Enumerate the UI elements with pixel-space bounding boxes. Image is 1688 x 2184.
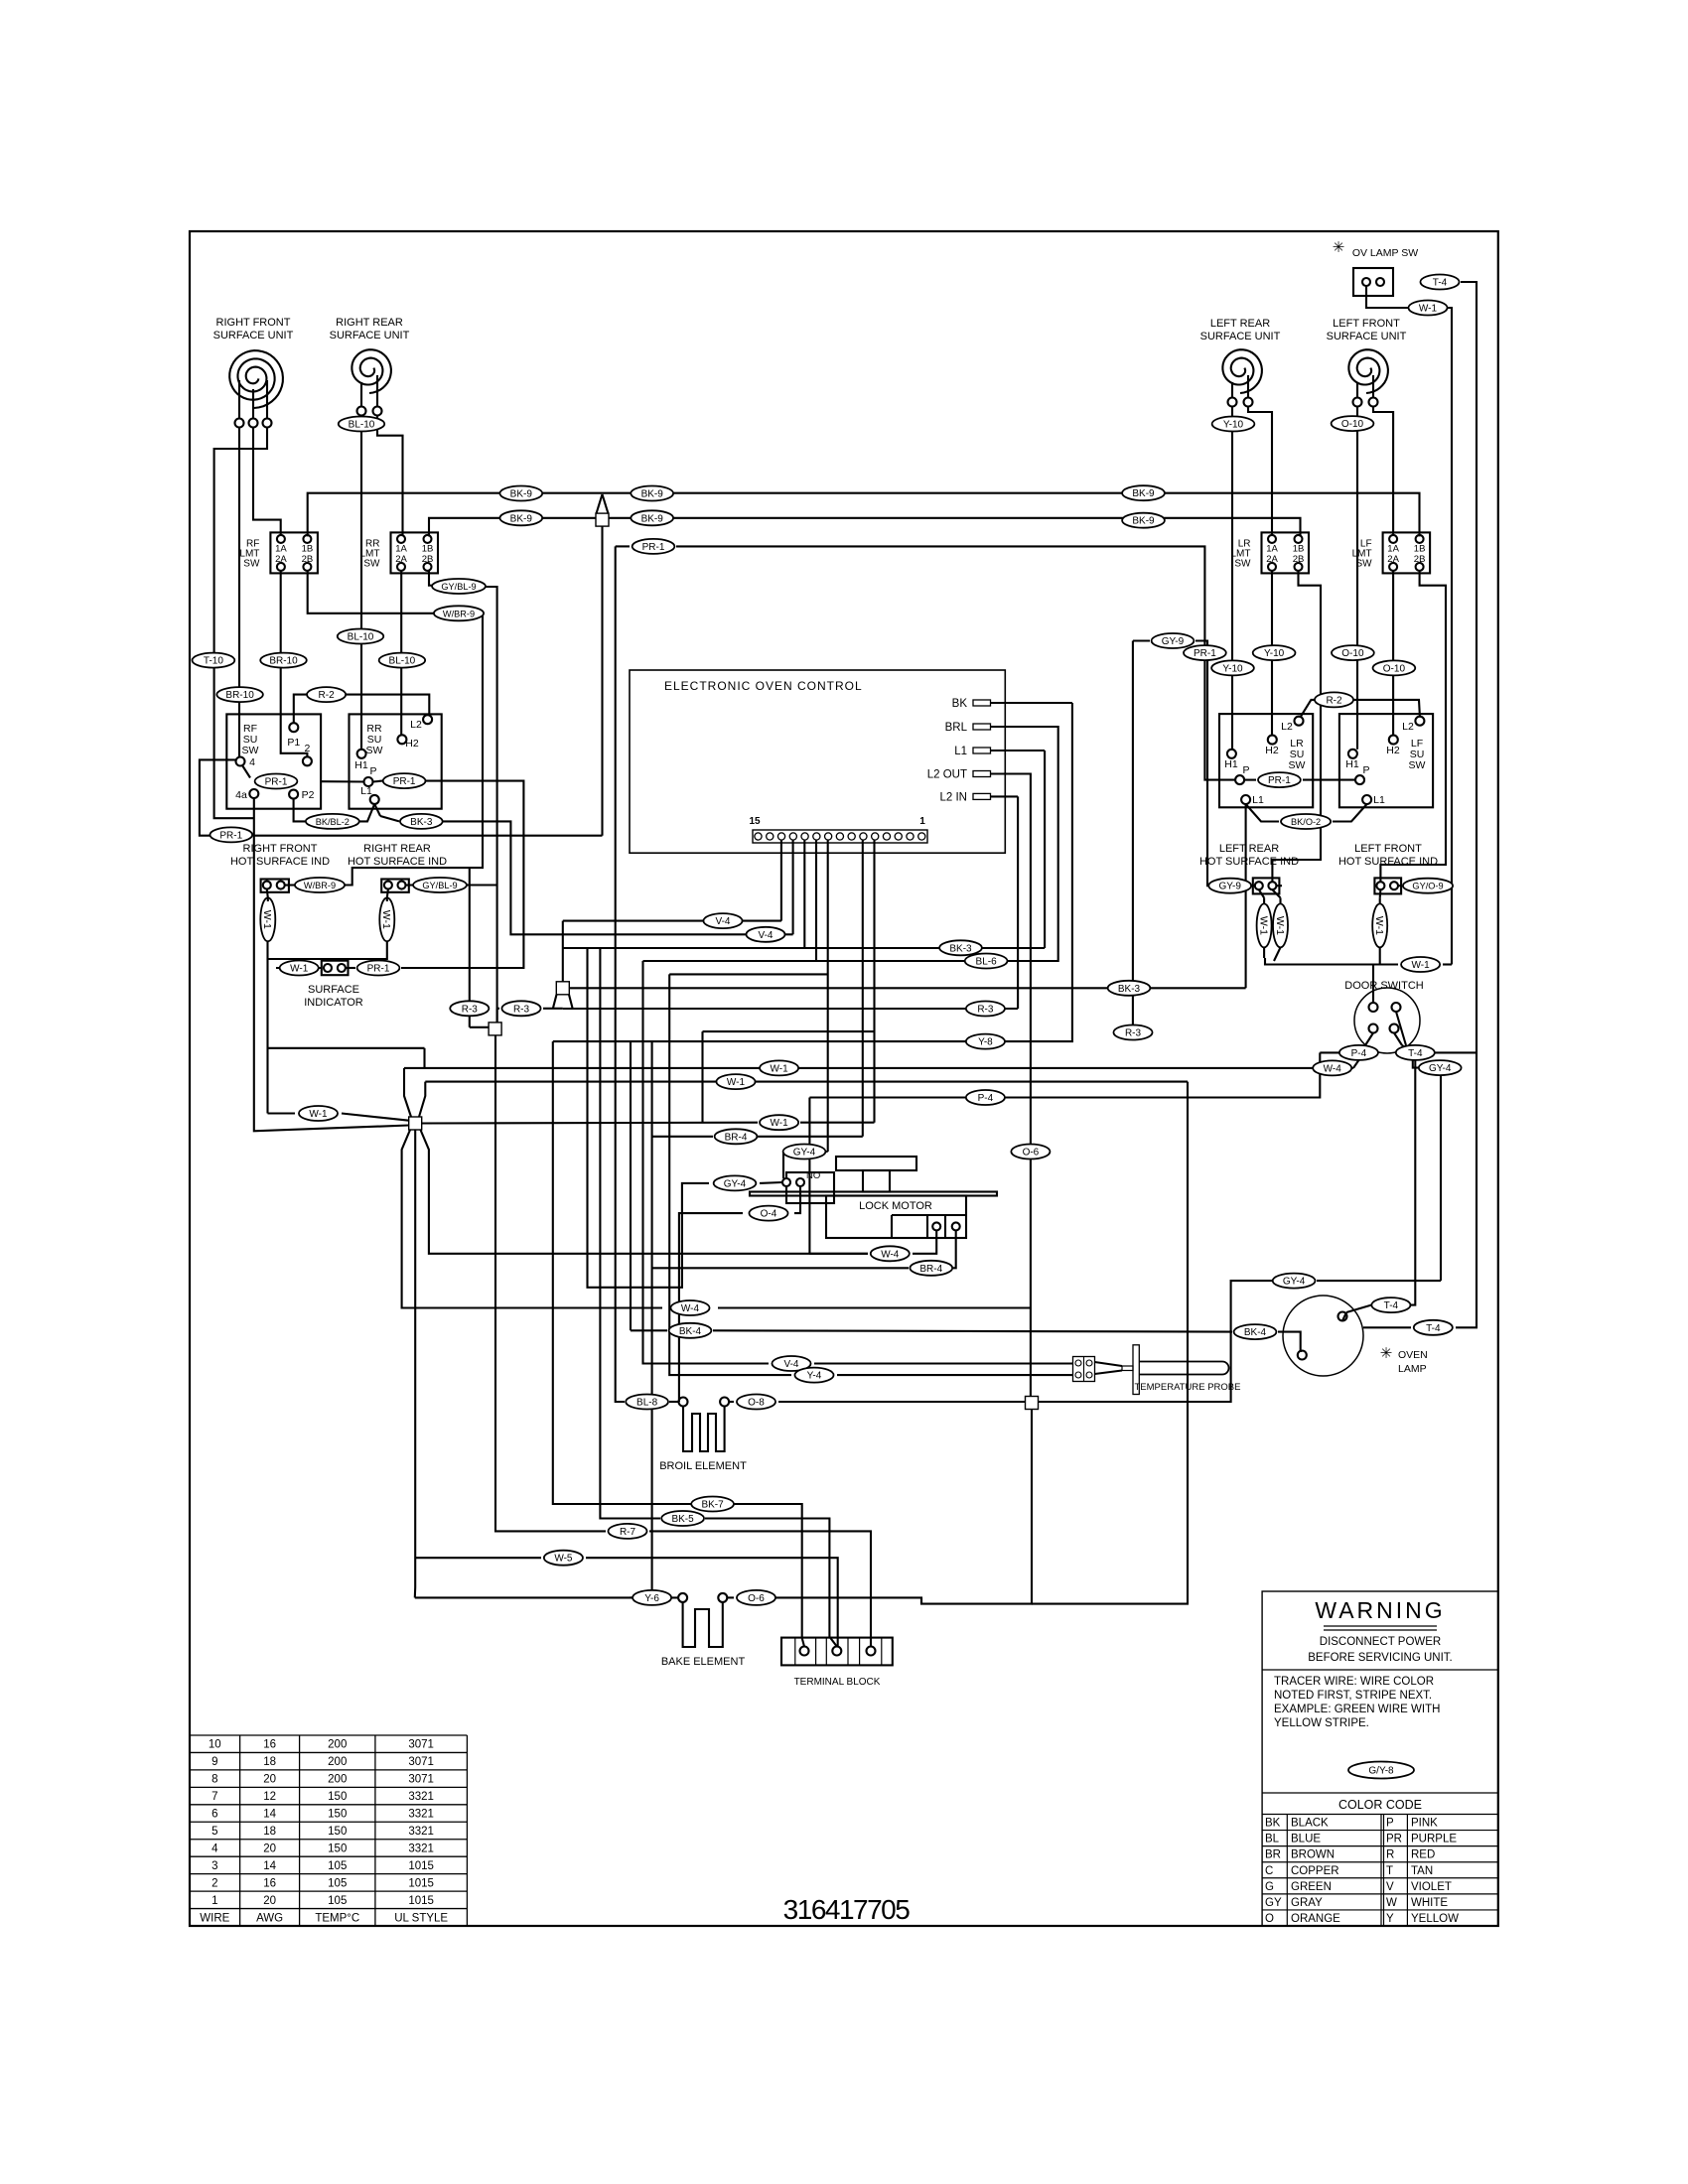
svg-text:BR: BR [1265, 1849, 1281, 1861]
svg-text:BK-4: BK-4 [1244, 1327, 1267, 1338]
svg-text:Y: Y [1386, 1913, 1394, 1925]
svg-text:V-4: V-4 [758, 930, 773, 941]
svg-text:BK-3: BK-3 [1118, 984, 1141, 995]
svg-text:1B: 1B [1414, 543, 1426, 554]
svg-text:BK/BL-2: BK/BL-2 [316, 817, 350, 827]
svg-text:W-5: W-5 [554, 1554, 573, 1565]
svg-text:H2: H2 [1386, 745, 1400, 756]
svg-text:Y-10: Y-10 [1264, 648, 1285, 659]
svg-text:GY-4: GY-4 [1429, 1063, 1452, 1074]
svg-text:SURFACE UNIT: SURFACE UNIT [213, 330, 294, 341]
svg-text:DOOR SWITCH: DOOR SWITCH [1344, 980, 1423, 992]
svg-text:10: 10 [209, 1739, 221, 1751]
svg-text:Y-8: Y-8 [978, 1037, 993, 1048]
svg-text:W-1: W-1 [771, 1063, 789, 1074]
svg-text:Y-10: Y-10 [1222, 663, 1243, 674]
svg-text:2: 2 [211, 1877, 217, 1889]
svg-text:COLOR CODE: COLOR CODE [1338, 1798, 1422, 1812]
svg-text:OV LAMP SW: OV LAMP SW [1352, 247, 1418, 259]
svg-text:NOTED FIRST, STRIPE NEXT.: NOTED FIRST, STRIPE NEXT. [1274, 1690, 1432, 1702]
svg-text:BAKE ELEMENT: BAKE ELEMENT [661, 1656, 746, 1668]
svg-text:P: P [1242, 764, 1249, 776]
svg-text:BL-6: BL-6 [976, 957, 998, 968]
svg-text:SURFACE UNIT: SURFACE UNIT [1200, 331, 1281, 342]
svg-text:O: O [1265, 1913, 1274, 1925]
svg-text:W-1: W-1 [1373, 916, 1385, 935]
svg-text:RED: RED [1411, 1849, 1435, 1861]
svg-text:BL-10: BL-10 [349, 420, 375, 431]
svg-text:P: P [369, 765, 376, 777]
svg-text:PR: PR [1386, 1834, 1402, 1845]
svg-text:SW: SW [243, 558, 260, 569]
svg-text:W-4: W-4 [681, 1303, 700, 1314]
svg-text:O-8: O-8 [748, 1398, 765, 1409]
svg-text:✳: ✳ [1333, 239, 1345, 256]
svg-text:3: 3 [211, 1860, 217, 1872]
svg-text:20: 20 [263, 1895, 276, 1907]
svg-text:L2: L2 [410, 719, 422, 731]
svg-text:LOCK MOTOR: LOCK MOTOR [859, 1200, 932, 1212]
svg-text:GY-9: GY-9 [1162, 636, 1185, 647]
svg-text:O-10: O-10 [1383, 663, 1406, 674]
svg-text:BK-7: BK-7 [701, 1500, 724, 1511]
svg-text:HOT SURFACE IND: HOT SURFACE IND [230, 856, 330, 868]
svg-text:NO: NO [806, 1170, 820, 1181]
svg-text:AWG: AWG [256, 1912, 283, 1924]
svg-text:DISCONNECT POWER: DISCONNECT POWER [1320, 1636, 1441, 1648]
svg-text:2A: 2A [1266, 554, 1278, 565]
svg-text:BROIL ELEMENT: BROIL ELEMENT [659, 1460, 747, 1472]
svg-text:T-4: T-4 [1433, 278, 1448, 289]
svg-text:16: 16 [263, 1739, 276, 1751]
svg-text:W-1: W-1 [261, 910, 273, 929]
svg-text:W/BR-9: W/BR-9 [443, 609, 475, 618]
svg-text:PR-1: PR-1 [393, 776, 416, 787]
svg-text:SW: SW [1234, 558, 1251, 569]
svg-text:BL-8: BL-8 [636, 1398, 658, 1409]
svg-text:TEMP°C: TEMP°C [315, 1912, 359, 1924]
svg-text:L1: L1 [954, 746, 967, 757]
svg-text:GY-9: GY-9 [1218, 882, 1241, 892]
svg-text:L2 IN: L2 IN [940, 791, 968, 803]
svg-text:1015: 1015 [408, 1877, 434, 1889]
svg-text:200: 200 [328, 1739, 347, 1751]
svg-text:R-3: R-3 [462, 1004, 479, 1015]
svg-text:GY-4: GY-4 [1283, 1277, 1306, 1288]
svg-text:LEFT REAR: LEFT REAR [1210, 318, 1270, 330]
svg-text:5: 5 [211, 1826, 217, 1838]
svg-text:Y-10: Y-10 [1223, 420, 1244, 431]
svg-text:O-6: O-6 [748, 1593, 765, 1604]
svg-text:BK-9: BK-9 [1132, 488, 1155, 499]
svg-text:W-1: W-1 [290, 964, 309, 975]
svg-text:O-10: O-10 [1341, 419, 1364, 430]
svg-text:PR-1: PR-1 [367, 964, 390, 975]
svg-text:6: 6 [211, 1809, 217, 1821]
svg-text:VIOLET: VIOLET [1411, 1881, 1452, 1893]
svg-text:GY/BL-9: GY/BL-9 [441, 582, 476, 592]
svg-text:H1: H1 [354, 759, 368, 771]
svg-text:PURPLE: PURPLE [1411, 1834, 1457, 1845]
svg-text:R-7: R-7 [620, 1527, 636, 1538]
svg-text:BLACK: BLACK [1291, 1818, 1329, 1830]
svg-text:BK-9: BK-9 [510, 489, 533, 500]
svg-text:18: 18 [263, 1826, 276, 1838]
svg-text:BK/O-2: BK/O-2 [1291, 817, 1321, 827]
svg-text:4: 4 [249, 756, 255, 768]
svg-text:P-4: P-4 [978, 1093, 994, 1104]
svg-text:GRAY: GRAY [1291, 1897, 1323, 1909]
svg-text:P1: P1 [287, 737, 300, 749]
svg-text:L2: L2 [1402, 721, 1414, 733]
svg-text:GY/BL-9: GY/BL-9 [422, 881, 457, 890]
svg-text:T-4: T-4 [1426, 1323, 1441, 1334]
svg-text:200: 200 [328, 1756, 347, 1768]
svg-text:W-1: W-1 [309, 1109, 328, 1120]
svg-text:BK: BK [1265, 1818, 1281, 1830]
svg-text:P: P [1362, 764, 1369, 776]
svg-text:H1: H1 [1224, 758, 1238, 770]
svg-text:SW: SW [1289, 759, 1306, 771]
svg-text:2A: 2A [395, 554, 407, 565]
svg-text:W: W [1386, 1897, 1397, 1909]
svg-text:W-1: W-1 [1274, 916, 1286, 935]
svg-text:4: 4 [211, 1843, 218, 1854]
svg-text:V-4: V-4 [783, 1359, 798, 1370]
svg-text:BK-5: BK-5 [671, 1514, 694, 1525]
svg-text:RIGHT FRONT: RIGHT FRONT [216, 317, 291, 329]
svg-text:P2: P2 [302, 789, 315, 801]
svg-text:T-4: T-4 [1408, 1048, 1423, 1059]
svg-text:1015: 1015 [408, 1895, 434, 1907]
svg-text:LEFT REAR: LEFT REAR [1219, 843, 1279, 855]
svg-text:H2: H2 [405, 738, 419, 750]
svg-text:20: 20 [263, 1774, 276, 1786]
svg-text:SURFACE: SURFACE [308, 984, 359, 996]
svg-text:O-10: O-10 [1341, 648, 1364, 659]
svg-text:TRACER WIRE: WIRE COLOR: TRACER WIRE: WIRE COLOR [1274, 1676, 1434, 1688]
svg-text:150: 150 [328, 1809, 347, 1821]
svg-text:BK: BK [952, 698, 968, 710]
svg-text:SURFACE UNIT: SURFACE UNIT [1327, 331, 1407, 342]
svg-text:1B: 1B [302, 543, 314, 554]
svg-text:BL-10: BL-10 [348, 632, 374, 643]
svg-text:R-3: R-3 [1125, 1028, 1142, 1039]
svg-text:BK-9: BK-9 [641, 513, 664, 524]
svg-text:W-1: W-1 [771, 1118, 789, 1129]
svg-text:14: 14 [263, 1860, 276, 1872]
svg-text:HOT SURFACE IND: HOT SURFACE IND [1199, 856, 1299, 868]
svg-text:W-4: W-4 [881, 1249, 900, 1260]
svg-text:R-2: R-2 [1326, 695, 1342, 706]
svg-text:SW: SW [363, 558, 380, 569]
svg-text:BK-4: BK-4 [679, 1326, 702, 1337]
svg-text:2A: 2A [275, 554, 287, 565]
svg-text:HOT SURFACE IND: HOT SURFACE IND [1338, 856, 1438, 868]
svg-text:R-3: R-3 [977, 1005, 994, 1016]
svg-text:BK-9: BK-9 [1132, 516, 1155, 527]
svg-text:3071: 3071 [408, 1739, 434, 1751]
svg-text:2B: 2B [422, 554, 434, 565]
svg-text:1: 1 [919, 816, 925, 827]
svg-text:3321: 3321 [408, 1809, 434, 1821]
svg-text:✳: ✳ [1380, 1345, 1393, 1362]
svg-text:105: 105 [328, 1895, 347, 1907]
svg-text:ORANGE: ORANGE [1291, 1913, 1340, 1925]
svg-text:18: 18 [263, 1756, 276, 1768]
svg-text:3071: 3071 [408, 1774, 434, 1786]
svg-text:14: 14 [263, 1809, 276, 1821]
svg-text:BLUE: BLUE [1291, 1834, 1321, 1845]
svg-text:7: 7 [211, 1791, 217, 1803]
svg-text:BROWN: BROWN [1291, 1849, 1335, 1861]
svg-text:H1: H1 [1345, 758, 1359, 770]
svg-text:1A: 1A [275, 543, 287, 554]
svg-text:R-3: R-3 [513, 1004, 530, 1015]
svg-text:GY-4: GY-4 [724, 1178, 747, 1189]
svg-text:2A: 2A [1387, 554, 1399, 565]
svg-text:150: 150 [328, 1843, 347, 1854]
svg-text:BR-4: BR-4 [919, 1264, 942, 1275]
svg-text:UL STYLE: UL STYLE [394, 1912, 448, 1924]
svg-text:PR-1: PR-1 [265, 777, 288, 788]
svg-text:GREEN: GREEN [1291, 1881, 1332, 1893]
svg-text:3321: 3321 [408, 1843, 434, 1854]
svg-text:2B: 2B [1293, 554, 1305, 565]
svg-text:L1: L1 [1252, 794, 1264, 806]
svg-text:COPPER: COPPER [1291, 1865, 1339, 1877]
svg-text:P: P [1386, 1818, 1394, 1830]
svg-text:W-4: W-4 [1324, 1063, 1342, 1074]
svg-text:9: 9 [211, 1756, 217, 1768]
svg-text:L2 OUT: L2 OUT [927, 769, 967, 781]
svg-text:3321: 3321 [408, 1826, 434, 1838]
svg-text:WHITE: WHITE [1411, 1897, 1448, 1909]
svg-text:Y-6: Y-6 [644, 1593, 659, 1604]
svg-text:2B: 2B [1414, 554, 1426, 565]
svg-text:BR-10: BR-10 [225, 690, 254, 701]
svg-text:G/Y-8: G/Y-8 [1368, 1766, 1394, 1777]
svg-text:105: 105 [328, 1860, 347, 1872]
svg-text:W-1: W-1 [380, 910, 392, 929]
svg-text:150: 150 [328, 1826, 347, 1838]
svg-text:1B: 1B [1293, 543, 1305, 554]
svg-text:BR-10: BR-10 [269, 656, 298, 667]
svg-text:W-1: W-1 [1258, 916, 1270, 935]
svg-text:EXAMPLE: GREEN WIRE WITH: EXAMPLE: GREEN WIRE WITH [1274, 1704, 1440, 1715]
svg-text:BK-3: BK-3 [949, 943, 972, 954]
svg-text:105: 105 [328, 1877, 347, 1889]
svg-text:W-1: W-1 [727, 1077, 746, 1088]
svg-text:L1: L1 [1373, 794, 1385, 806]
svg-text:20: 20 [263, 1843, 276, 1854]
svg-text:PR-1: PR-1 [219, 830, 242, 841]
svg-text:1A: 1A [395, 543, 407, 554]
svg-text:8: 8 [211, 1774, 217, 1786]
svg-text:BL: BL [1265, 1834, 1280, 1845]
svg-text:1A: 1A [1266, 543, 1278, 554]
svg-text:12: 12 [263, 1791, 276, 1803]
svg-text:BK-9: BK-9 [510, 513, 533, 524]
svg-text:H2: H2 [1265, 745, 1279, 756]
svg-text:YELLOW STRIPE.: YELLOW STRIPE. [1274, 1717, 1369, 1729]
svg-text:316417705: 316417705 [783, 1894, 911, 1925]
svg-text:LAMP: LAMP [1398, 1363, 1427, 1375]
svg-text:1B: 1B [422, 543, 434, 554]
svg-text:L1: L1 [360, 785, 372, 797]
svg-text:W-1: W-1 [1419, 304, 1438, 315]
svg-text:200: 200 [328, 1774, 347, 1786]
svg-text:V: V [1386, 1881, 1394, 1893]
svg-text:C: C [1265, 1865, 1273, 1877]
svg-text:1015: 1015 [408, 1860, 434, 1872]
svg-text:T-10: T-10 [204, 656, 223, 667]
svg-text:4a: 4a [235, 789, 247, 801]
svg-text:16: 16 [263, 1877, 276, 1889]
svg-text:3071: 3071 [408, 1756, 434, 1768]
svg-text:BL-10: BL-10 [389, 656, 416, 667]
svg-text:GY: GY [1265, 1897, 1282, 1909]
svg-text:BK-3: BK-3 [410, 817, 433, 828]
svg-text:OVEN: OVEN [1398, 1349, 1428, 1361]
svg-text:BEFORE SERVICING UNIT.: BEFORE SERVICING UNIT. [1308, 1652, 1452, 1664]
svg-text:3321: 3321 [408, 1791, 434, 1803]
svg-text:SW: SW [242, 745, 259, 756]
svg-text:150: 150 [328, 1791, 347, 1803]
svg-text:TERMINAL BLOCK: TERMINAL BLOCK [794, 1677, 881, 1688]
svg-text:2B: 2B [302, 554, 314, 565]
svg-text:BR-4: BR-4 [725, 1132, 748, 1143]
svg-text:ELECTRONIC OVEN CONTROL: ELECTRONIC OVEN CONTROL [664, 679, 863, 693]
svg-text:GY-4: GY-4 [793, 1148, 816, 1159]
svg-text:Y-4: Y-4 [807, 1371, 822, 1382]
svg-text:RIGHT REAR: RIGHT REAR [363, 843, 431, 855]
svg-text:PR-1: PR-1 [642, 542, 665, 553]
svg-text:WARNING: WARNING [1315, 1597, 1445, 1623]
svg-text:GY/O-9: GY/O-9 [1412, 882, 1443, 891]
svg-text:L2: L2 [1281, 721, 1293, 733]
svg-text:T: T [1386, 1865, 1393, 1877]
svg-text:R-2: R-2 [319, 690, 336, 701]
svg-text:G: G [1265, 1881, 1274, 1893]
svg-text:WIRE: WIRE [200, 1912, 229, 1924]
svg-text:T-4: T-4 [1384, 1300, 1399, 1311]
svg-text:LEFT FRONT: LEFT FRONT [1333, 318, 1400, 330]
svg-text:1: 1 [211, 1895, 217, 1907]
svg-text:1A: 1A [1387, 543, 1399, 554]
svg-text:HOT SURFACE IND: HOT SURFACE IND [348, 856, 447, 868]
svg-text:R: R [1386, 1849, 1394, 1861]
svg-text:YELLOW: YELLOW [1411, 1913, 1459, 1925]
svg-text:O-4: O-4 [761, 1209, 777, 1220]
svg-text:V-4: V-4 [715, 916, 730, 927]
svg-text:SW: SW [366, 745, 383, 756]
svg-text:W-1: W-1 [1412, 960, 1431, 971]
svg-text:PR-1: PR-1 [1268, 775, 1291, 786]
svg-text:PINK: PINK [1411, 1818, 1438, 1830]
svg-text:BK-9: BK-9 [641, 489, 664, 500]
svg-text:PR-1: PR-1 [1194, 648, 1216, 659]
svg-text:SW: SW [1409, 759, 1426, 771]
svg-text:INDICATOR: INDICATOR [304, 997, 363, 1009]
svg-text:BRL: BRL [945, 722, 968, 734]
svg-text:W/BR-9: W/BR-9 [304, 881, 336, 890]
svg-text:15: 15 [749, 816, 761, 827]
svg-text:TAN: TAN [1411, 1865, 1433, 1877]
svg-text:P-4: P-4 [1351, 1048, 1367, 1059]
svg-text:O-6: O-6 [1023, 1148, 1040, 1159]
svg-text:LEFT FRONT: LEFT FRONT [1354, 843, 1422, 855]
svg-text:RIGHT REAR: RIGHT REAR [336, 317, 403, 329]
svg-text:SURFACE UNIT: SURFACE UNIT [330, 330, 410, 341]
